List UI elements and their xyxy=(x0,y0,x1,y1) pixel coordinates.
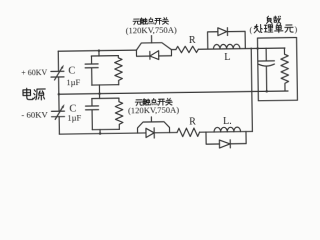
node C (bottom rail / snubber stub) xyxy=(99,132,102,135)
load box outline xyxy=(257,38,297,101)
resistor snubber lower xyxy=(115,98,123,129)
capacitor C1 (+60KV filter, variable) xyxy=(51,71,64,77)
node E (load cap / middle rail) xyxy=(265,90,268,93)
wire snubber lower bottom bar xyxy=(92,128,119,130)
svg-text:1µF: 1µF xyxy=(67,112,81,122)
svg-text:L.: L. xyxy=(223,116,232,127)
node D (middle rail left end) xyxy=(58,93,61,96)
label 负载 (load) xyxy=(266,16,280,24)
transistor U1 (upper contactless switch) xyxy=(136,43,171,51)
node B (middle rail / snubber stubs) xyxy=(98,92,101,95)
node A (top rail / snubber stub) xyxy=(98,49,101,52)
wire snubber upper top bar xyxy=(91,55,118,57)
svg-text:- 60KV: - 60KV xyxy=(21,109,49,119)
gate terminal U1 xyxy=(151,36,153,43)
svg-text:): ) xyxy=(294,25,297,34)
wire top rail middle segment xyxy=(171,49,175,51)
node F (top rail / box edge) xyxy=(256,47,259,50)
svg-text:R: R xyxy=(189,35,196,46)
inductor L1 (upper) xyxy=(213,44,240,49)
wire top rail right segment xyxy=(198,48,285,49)
svg-text:(120KV,750A): (120KV,750A) xyxy=(126,25,177,36)
capacitor C3 (load) xyxy=(258,48,274,91)
svg-text:+ 60KV: + 60KV xyxy=(21,67,48,77)
resistor snubber upper xyxy=(115,56,123,85)
wire left supply bus xyxy=(58,51,59,134)
inductor L2 (lower) xyxy=(214,127,241,132)
diode D3 (inline, lower switch) xyxy=(146,128,154,137)
label 无触点开关 (lower) xyxy=(135,98,172,105)
snubber lower: connection stubs xyxy=(99,94,102,134)
resistor R3 (load) xyxy=(281,48,289,91)
wire middle rail xyxy=(59,91,288,94)
node G (top rail / right vertical) xyxy=(250,47,252,49)
capacitor snubber lower xyxy=(85,98,98,129)
wire snubber upper bottom bar xyxy=(92,84,119,86)
diode D4 (freewheel under L2) xyxy=(206,132,246,145)
svg-text:(: ( xyxy=(249,26,252,35)
wire top rail left segment xyxy=(58,50,136,51)
label 处理单元 (processing unit) xyxy=(254,24,293,33)
svg-text:R: R xyxy=(189,117,196,128)
capacitor C2 (-60KV filter, variable) xyxy=(51,111,64,117)
snubber upper: connection stubs xyxy=(98,51,101,94)
resistor R1 (upper) xyxy=(176,46,199,53)
svg-text:L: L xyxy=(224,52,230,63)
resistor R2 (lower) xyxy=(177,128,200,137)
gate terminal U2 xyxy=(150,117,152,122)
wire snubber lower top bar xyxy=(92,97,119,99)
svg-text:1µF: 1µF xyxy=(66,77,80,87)
paper background xyxy=(0,0,300,163)
svg-text:(120KV,750A): (120KV,750A) xyxy=(128,105,179,116)
capacitor snubber upper xyxy=(85,56,98,85)
label 电源 (power source) xyxy=(23,88,45,100)
wire bottom rail right segment xyxy=(154,131,252,132)
diode D2 (freewheel over L1) xyxy=(208,31,246,49)
diode D1 (anti-parallel, upper switch) xyxy=(136,50,171,57)
transistor U2 (lower contactless switch) xyxy=(137,122,169,133)
wire bottom rail left segment xyxy=(59,133,146,134)
wire right vertical joining branches xyxy=(251,49,252,132)
svg-text:C: C xyxy=(68,65,75,76)
label 无触点开关 (upper) xyxy=(133,17,169,24)
CJK stroke glyphs xyxy=(22,16,294,107)
